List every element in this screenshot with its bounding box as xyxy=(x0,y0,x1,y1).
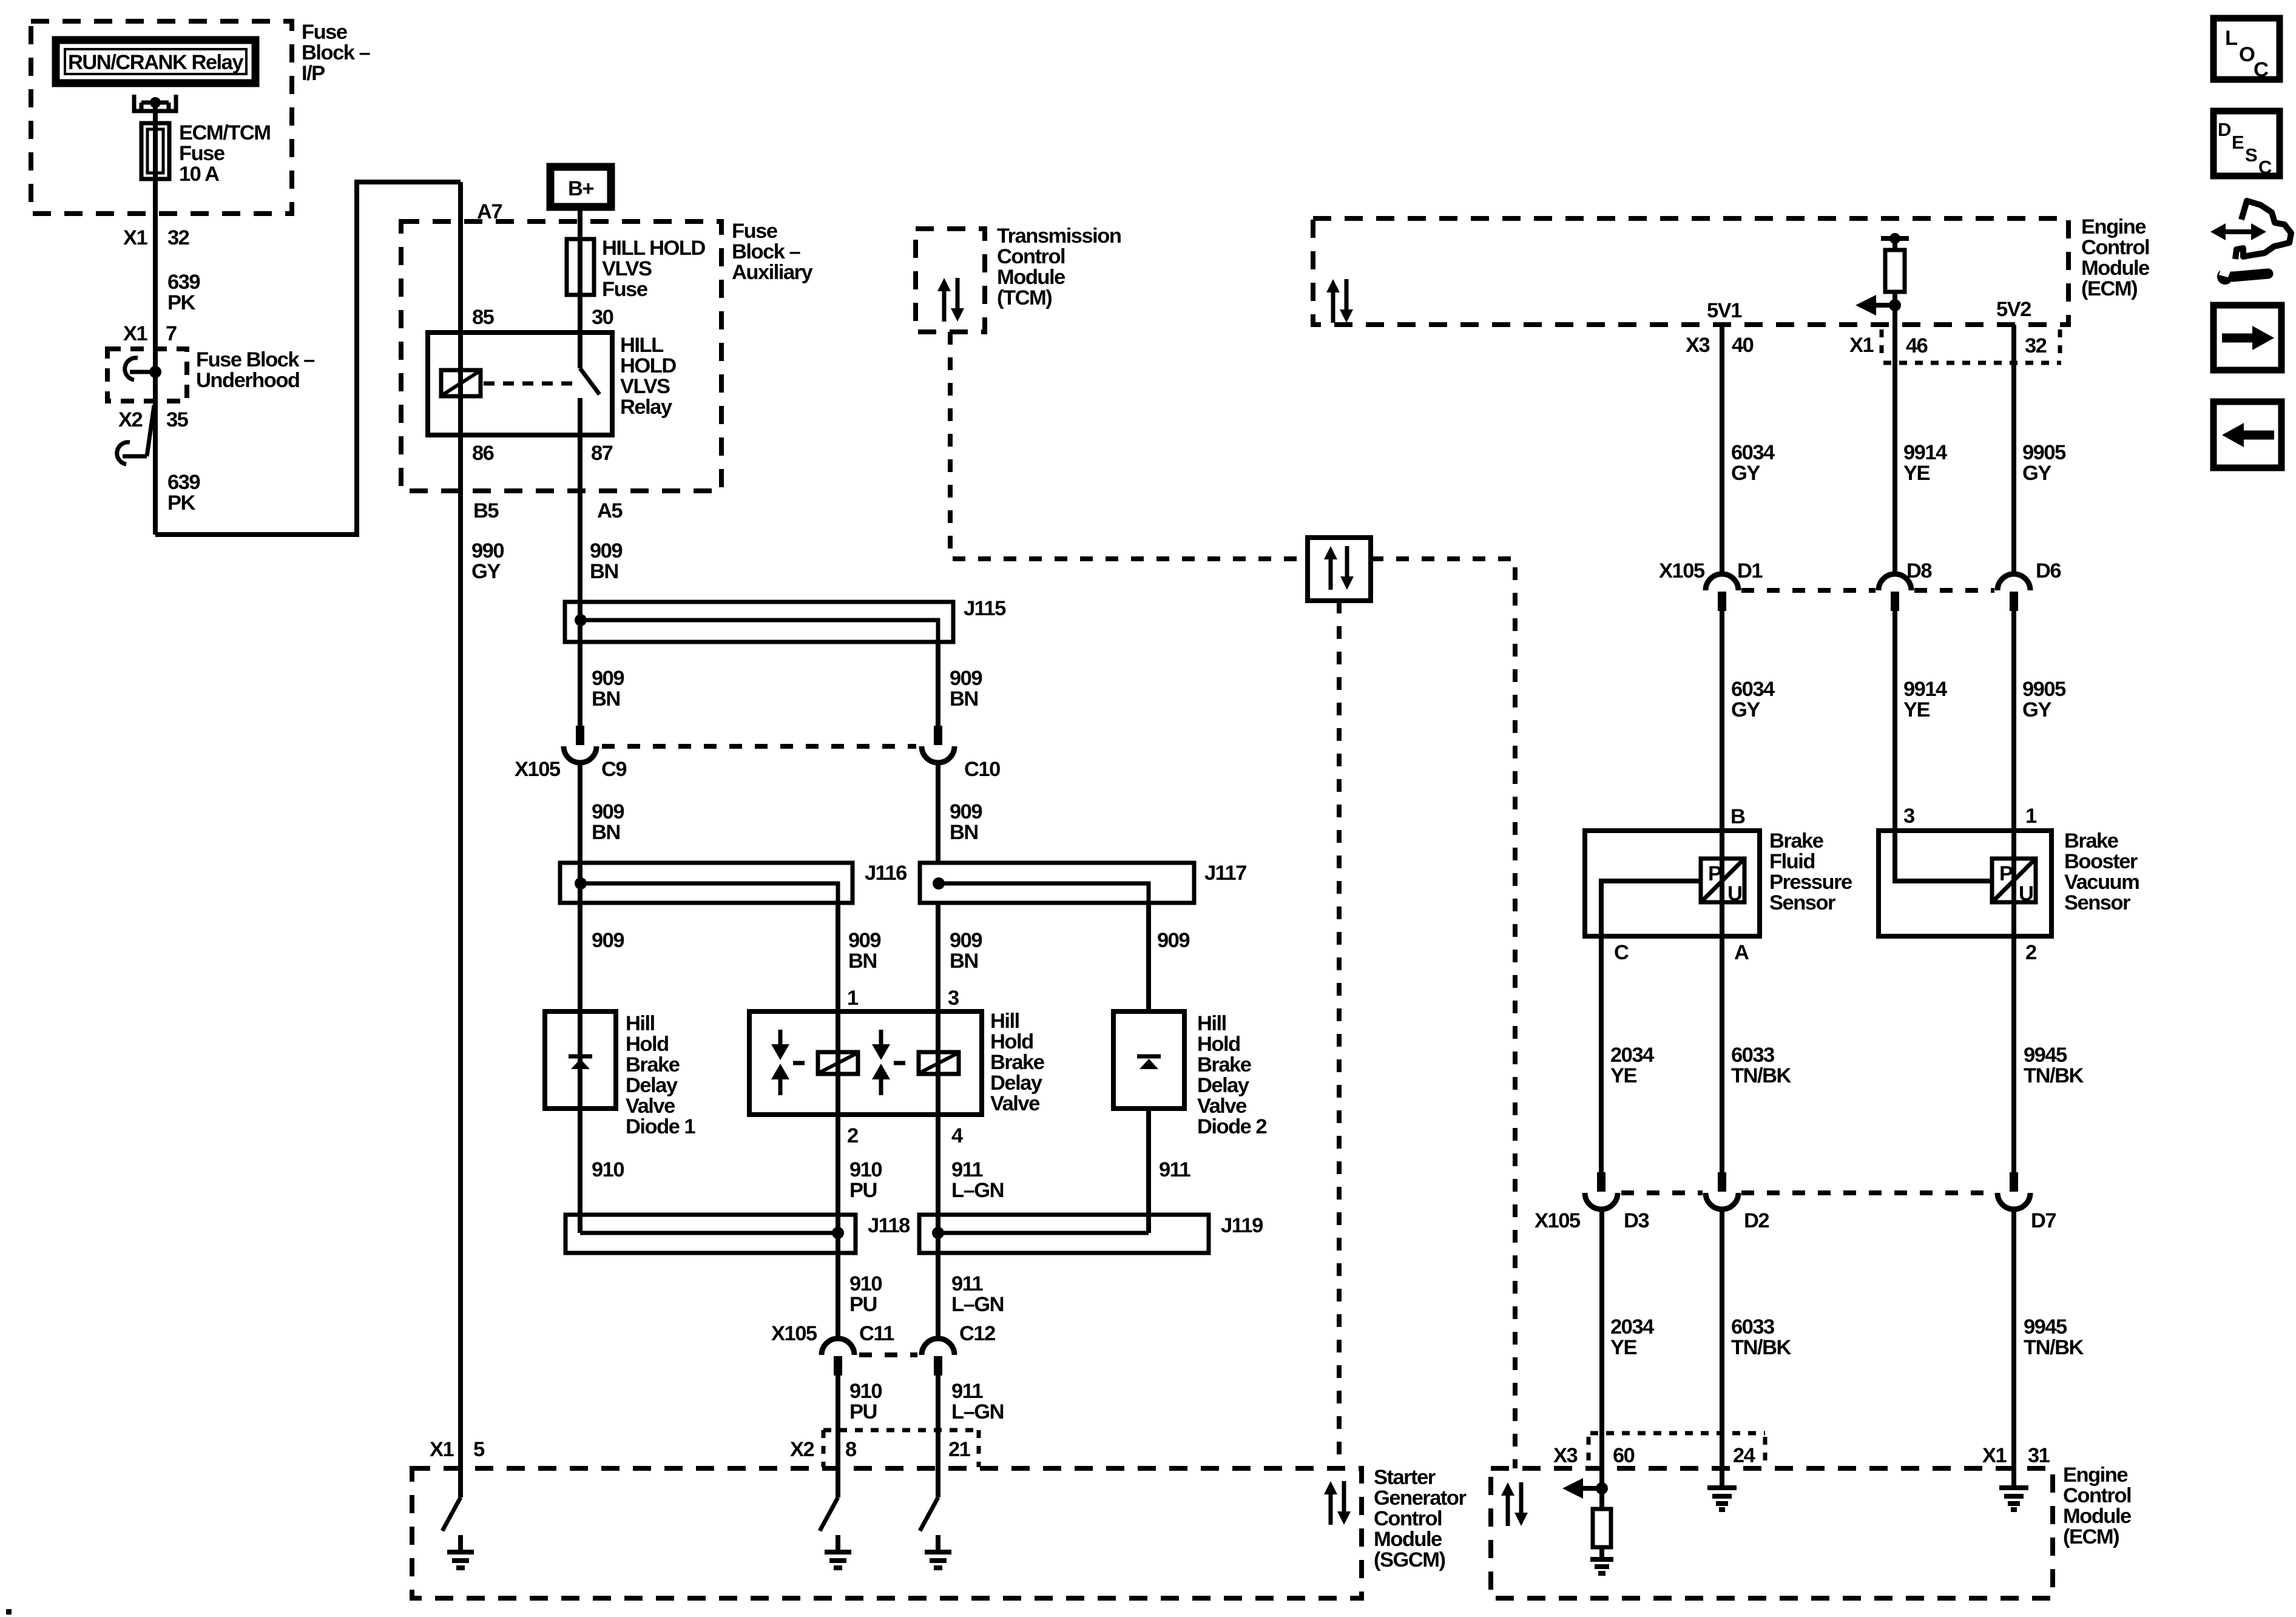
svg-text:J118: J118 xyxy=(868,1214,910,1237)
ground 9945 at X1 31 xyxy=(1999,1488,2028,1510)
svg-text:909: 909 xyxy=(1157,929,1189,952)
dash link right xyxy=(894,1061,905,1065)
wire 9945 TN/BK D7 to X1 31 xyxy=(2011,1207,2016,1485)
svg-text:BN: BN xyxy=(950,821,978,844)
svg-text:C: C xyxy=(2258,157,2272,178)
ground 6033 at 24 xyxy=(1707,1488,1737,1510)
wire 911 L-GN valve pin 4 to J119 xyxy=(936,1115,940,1338)
connector C11 female dome xyxy=(822,1338,854,1355)
wire 6034 GY D1 to sensor B xyxy=(1720,611,1724,831)
svg-text:10 A: 10 A xyxy=(179,163,219,186)
diode 2 symbol xyxy=(1137,1056,1161,1069)
wire 910 PU valve pin 2 to J118 xyxy=(836,1115,840,1338)
svg-text:Delay: Delay xyxy=(1197,1074,1249,1097)
svg-text:D7: D7 xyxy=(2031,1209,2056,1232)
svg-text:Fuse: Fuse xyxy=(602,278,648,301)
svg-text:GY: GY xyxy=(1731,698,1760,721)
svg-text:PK: PK xyxy=(167,291,196,314)
svg-text:(ECM): (ECM) xyxy=(2081,277,2137,300)
svg-text:909: 909 xyxy=(848,929,880,952)
brake booster vacuum sensor box xyxy=(1879,831,2051,936)
svg-text:(SGCM): (SGCM) xyxy=(1374,1548,1445,1571)
svg-text:YE: YE xyxy=(1610,1336,1637,1359)
valve coil 1 xyxy=(818,1052,858,1074)
svg-text:Valve: Valve xyxy=(990,1092,1040,1115)
svg-text:PK: PK xyxy=(167,491,196,515)
wire 910 PU C11 to X2 8 xyxy=(836,1376,840,1497)
svg-text:YE: YE xyxy=(1903,698,1930,721)
svg-text:Control: Control xyxy=(997,245,1065,268)
connector hook inside underhood box xyxy=(125,358,161,380)
svg-text:L: L xyxy=(2225,27,2238,50)
svg-text:X2: X2 xyxy=(118,408,143,431)
svg-text:J119: J119 xyxy=(1221,1214,1263,1237)
svg-text:35: 35 xyxy=(166,408,189,431)
svg-text:639: 639 xyxy=(167,271,200,294)
fuse block auxiliary dashed box xyxy=(401,221,721,491)
connector D1 dome and pin xyxy=(1706,574,1738,611)
svg-text:Underhood: Underhood xyxy=(196,369,299,392)
wire 909 BN J115 to C10 xyxy=(936,642,940,734)
svg-text:6033: 6033 xyxy=(1731,1315,1774,1338)
svg-text:Valve: Valve xyxy=(626,1095,675,1118)
svg-text:E: E xyxy=(2232,132,2244,153)
transmission control module TCM dashed box xyxy=(916,229,985,332)
svg-text:I/P: I/P xyxy=(302,62,325,85)
svg-text:Control: Control xyxy=(2081,236,2149,259)
fuse HILL HOLD VLVS xyxy=(567,239,594,295)
svg-text:909: 909 xyxy=(592,667,624,690)
svg-text:U: U xyxy=(2019,882,2033,905)
svg-text:PU: PU xyxy=(849,1179,877,1202)
sensor 1 internal line to pin C xyxy=(1601,881,1701,936)
svg-text:L–GN: L–GN xyxy=(951,1293,1004,1316)
wire B+ to fuse xyxy=(578,207,582,333)
splice J117 xyxy=(920,863,1194,903)
svg-text:Hill: Hill xyxy=(990,1010,1019,1033)
svg-text:X105: X105 xyxy=(771,1322,817,1345)
svg-text:5V2: 5V2 xyxy=(1996,298,2031,321)
svg-text:Transmission: Transmission xyxy=(997,224,1121,248)
svg-text:Fluid: Fluid xyxy=(1769,850,1815,873)
svg-text:911: 911 xyxy=(951,1380,983,1403)
svg-text:40: 40 xyxy=(1732,334,1754,357)
wire 990 GY pin 86 down full left run xyxy=(458,435,463,1497)
svg-text:909: 909 xyxy=(950,667,982,690)
relay dashed actuation link xyxy=(484,382,576,386)
svg-text:Brake: Brake xyxy=(2064,829,2119,852)
wire 639 PK bottom run to relay coil xyxy=(155,182,461,535)
data link arrows in TCM xyxy=(937,278,964,322)
svg-text:4: 4 xyxy=(951,1124,963,1147)
svg-text:Engine: Engine xyxy=(2063,1463,2128,1487)
fuse ECM/TCM 10A xyxy=(141,123,169,179)
svg-text:32: 32 xyxy=(2025,334,2047,357)
svg-text:X3: X3 xyxy=(1686,334,1710,357)
ground X2 8 xyxy=(825,1535,851,1568)
svg-text:639: 639 xyxy=(167,471,200,494)
wire 9914 YE D8 to sensor 3 xyxy=(1893,611,1897,831)
brake fluid pressure sensor box xyxy=(1585,831,1760,936)
svg-text:1: 1 xyxy=(847,987,859,1010)
relay switch blade xyxy=(580,333,599,394)
pull-down resistor in ECM xyxy=(1599,1488,1604,1509)
svg-text:D8: D8 xyxy=(1906,559,1932,582)
svg-text:D1: D1 xyxy=(1737,559,1763,582)
wire 9914 YE 46 to D8 xyxy=(1893,325,1897,576)
wire 6034 GY 5V1 to D1 xyxy=(1720,325,1724,576)
svg-text:1: 1 xyxy=(2025,805,2037,828)
svg-text:32: 32 xyxy=(167,226,189,249)
wire 9945 TN/BK pin 2 to D7 xyxy=(2011,936,2016,1177)
connector D3 pin and cup xyxy=(1585,1172,1618,1209)
svg-text:3: 3 xyxy=(948,987,959,1010)
svg-text:5V1: 5V1 xyxy=(1707,299,1742,322)
connector C9 female cup xyxy=(564,746,596,763)
svg-text:HOLD: HOLD xyxy=(620,354,676,377)
svg-text:Generator: Generator xyxy=(1374,1487,1466,1510)
svg-text:Module: Module xyxy=(1374,1528,1442,1551)
sensor 2 internal wire from pin 3 xyxy=(1895,831,1992,881)
svg-text:TN/BK: TN/BK xyxy=(1731,1064,1791,1087)
svg-text:909: 909 xyxy=(950,929,982,952)
fuse block I/P dashed box xyxy=(31,21,292,214)
svg-text:X2: X2 xyxy=(790,1438,814,1461)
svg-text:Fuse: Fuse xyxy=(179,142,225,165)
wire diode 2 down to J119 xyxy=(1146,1109,1151,1233)
svg-text:9945: 9945 xyxy=(2024,1315,2067,1338)
connector D7 pin and cup xyxy=(1997,1172,2030,1209)
svg-text:910: 910 xyxy=(849,1158,882,1181)
RUN/CRANK Relay bold box xyxy=(56,40,255,83)
data link arrows in SGCM xyxy=(1324,1481,1351,1525)
wire A7 down to relay pin 85 xyxy=(458,182,463,333)
svg-text:2: 2 xyxy=(2025,941,2036,964)
svg-text:BN: BN xyxy=(592,687,620,711)
svg-text:31: 31 xyxy=(2028,1444,2050,1467)
wire 909 BN J116 to valve pin 1 xyxy=(836,903,840,1011)
svg-text:Vacuum: Vacuum xyxy=(2064,871,2139,894)
wire 2034 YE D3 to X3 60 xyxy=(1599,1207,1604,1488)
svg-text:Delay: Delay xyxy=(626,1074,678,1097)
svg-text:C: C xyxy=(1614,941,1629,964)
svg-text:Pressure: Pressure xyxy=(1769,871,1852,894)
icon car outline with wrench xyxy=(2210,201,2291,285)
dashed connector line D3 D2 xyxy=(1621,1190,1703,1195)
svg-text:909: 909 xyxy=(592,800,624,823)
svg-text:Control: Control xyxy=(1374,1507,1442,1530)
svg-text:Fuse: Fuse xyxy=(302,21,348,44)
svg-text:Brake: Brake xyxy=(626,1053,680,1076)
svg-text:D6: D6 xyxy=(2036,559,2061,582)
check valve symbol right xyxy=(872,1030,890,1095)
connector D8 dome and pin xyxy=(1879,574,1911,611)
svg-text:PU: PU xyxy=(849,1400,877,1423)
svg-text:9914: 9914 xyxy=(1903,441,1947,464)
svg-text:L–GN: L–GN xyxy=(951,1179,1004,1202)
svg-text:Sensor: Sensor xyxy=(1769,891,1835,914)
check valve symbol left xyxy=(771,1030,789,1095)
icon back arrow box xyxy=(2213,402,2281,468)
data link arrows in junction box xyxy=(1324,546,1354,590)
svg-text:HILL: HILL xyxy=(620,334,664,357)
svg-text:Brake: Brake xyxy=(1197,1053,1252,1076)
svg-text:A: A xyxy=(1734,941,1749,964)
wire 639 PK from fuse down xyxy=(153,103,158,535)
svg-text:GY: GY xyxy=(471,560,501,583)
svg-text:Auxiliary: Auxiliary xyxy=(732,261,813,284)
relay coil xyxy=(441,370,481,396)
fuse block underhood dashed connector box xyxy=(107,349,187,401)
svg-text:Module: Module xyxy=(2081,257,2150,280)
svg-text:J117: J117 xyxy=(1204,862,1246,885)
svg-text:VLVS: VLVS xyxy=(620,375,670,398)
svg-text:Block –: Block – xyxy=(302,41,371,64)
svg-text:B+: B+ xyxy=(568,177,593,200)
connector C12 male pin xyxy=(934,1356,942,1376)
wire through coil 1 xyxy=(836,1011,840,1115)
data link arrows in ECM bottom xyxy=(1501,1482,1528,1526)
sensor 1 P/U transducer square xyxy=(1701,859,1744,905)
connector X1 dotted box 46 32 xyxy=(1882,329,2061,363)
junction dot and arrow X3 60 xyxy=(1562,1478,1608,1499)
serial data junction box xyxy=(1308,538,1371,601)
junction dot and arrow 46 xyxy=(1855,295,1901,316)
svg-text:BN: BN xyxy=(950,950,978,973)
svg-text:Relay: Relay xyxy=(620,396,672,419)
svg-text:VLVS: VLVS xyxy=(602,257,652,280)
dashed connector line C9 C10 xyxy=(602,744,916,749)
svg-text:5: 5 xyxy=(473,1438,485,1461)
svg-text:X3: X3 xyxy=(1553,1444,1578,1467)
svg-text:Sensor: Sensor xyxy=(2064,891,2130,914)
ground below resistor xyxy=(1590,1547,1613,1573)
svg-text:46: 46 xyxy=(1906,334,1928,357)
ground X1 5 xyxy=(447,1535,474,1568)
svg-text:6034: 6034 xyxy=(1731,441,1775,464)
svg-text:HILL HOLD: HILL HOLD xyxy=(602,237,705,260)
svg-text:6033: 6033 xyxy=(1731,1044,1774,1067)
svg-text:C11: C11 xyxy=(859,1322,894,1345)
svg-text:Hold: Hold xyxy=(626,1033,669,1056)
diode 1 box xyxy=(545,1011,616,1109)
svg-text:910: 910 xyxy=(849,1272,882,1295)
svg-text:Hill: Hill xyxy=(1197,1012,1226,1035)
starter generator control module SGCM dashed box xyxy=(412,1468,1362,1598)
diode 1 symbol xyxy=(569,1056,592,1069)
svg-text:990: 990 xyxy=(471,539,504,562)
fuse clip symbol under relay xyxy=(134,95,176,111)
svg-text:9905: 9905 xyxy=(2022,678,2066,701)
svg-text:J116: J116 xyxy=(865,862,907,885)
svg-text:TN/BK: TN/BK xyxy=(1731,1336,1791,1359)
svg-text:BN: BN xyxy=(592,821,620,844)
svg-text:909: 909 xyxy=(590,539,622,562)
svg-text:X105: X105 xyxy=(515,758,561,781)
svg-text:911: 911 xyxy=(951,1158,983,1181)
engine control module ECM dashed box top xyxy=(1313,218,2068,325)
wire 9905 GY D6 to sensor 1 xyxy=(2011,611,2016,831)
sensor 2 internal wire pin 1 to 2 xyxy=(2011,831,2016,936)
icon DESC box xyxy=(2213,111,2280,178)
dashed connector line C11 C12 xyxy=(859,1352,917,1357)
svg-text:C9: C9 xyxy=(601,758,626,781)
svg-text:B: B xyxy=(1730,805,1745,828)
svg-text:Fuse: Fuse xyxy=(732,220,778,243)
wire through coil 2 xyxy=(936,1011,940,1115)
svg-text:9914: 9914 xyxy=(1903,678,1947,701)
svg-text:D2: D2 xyxy=(1744,1209,1769,1232)
wire 909 BN J115 to C9 xyxy=(578,642,582,734)
svg-text:Engine: Engine xyxy=(2081,215,2146,238)
diode 2 box xyxy=(1113,1011,1184,1109)
svg-text:Starter: Starter xyxy=(1374,1466,1436,1489)
wire 6033 TN/BK D2 to 24 ground xyxy=(1720,1207,1724,1487)
svg-text:Module: Module xyxy=(2063,1505,2132,1528)
wire 2034 YE pin C to D3 xyxy=(1599,936,1604,1177)
svg-text:Hold: Hold xyxy=(1197,1033,1240,1056)
svg-text:RUN/CRANK Relay: RUN/CRANK Relay xyxy=(68,51,243,74)
wire 909 BN pin 87 down to J115 xyxy=(578,398,582,734)
svg-text:Diode 1: Diode 1 xyxy=(626,1115,695,1138)
svg-text:BN: BN xyxy=(950,687,978,711)
svg-text:60: 60 xyxy=(1613,1444,1635,1467)
svg-text:X1: X1 xyxy=(430,1438,454,1461)
svg-text:910: 910 xyxy=(849,1380,882,1403)
ground X2 21 xyxy=(925,1535,951,1568)
svg-text:S: S xyxy=(2245,144,2257,166)
svg-text:YE: YE xyxy=(1610,1064,1637,1087)
svg-text:8: 8 xyxy=(845,1438,857,1461)
svg-text:GY: GY xyxy=(2022,698,2051,721)
svg-text:910: 910 xyxy=(592,1158,624,1181)
dash link left xyxy=(793,1061,805,1065)
connector C9 male pin xyxy=(576,726,584,745)
svg-text:C: C xyxy=(2254,58,2268,81)
svg-text:21: 21 xyxy=(948,1438,971,1461)
data link arrows in ECM xyxy=(1326,279,1353,323)
svg-text:BN: BN xyxy=(848,950,877,973)
splice J116 xyxy=(560,863,853,903)
svg-text:2034: 2034 xyxy=(1610,1315,1654,1338)
svg-text:GY: GY xyxy=(2022,462,2051,485)
svg-text:Booster: Booster xyxy=(2064,850,2138,873)
svg-text:X105: X105 xyxy=(1535,1209,1581,1232)
svg-text:C12: C12 xyxy=(959,1322,995,1345)
svg-text:2034: 2034 xyxy=(1610,1044,1654,1067)
svg-text:J115: J115 xyxy=(964,597,1006,620)
svg-text:Diode 2: Diode 2 xyxy=(1197,1115,1266,1138)
svg-text:6034: 6034 xyxy=(1731,678,1775,701)
svg-text:X1: X1 xyxy=(123,322,148,345)
connector C11 male pin xyxy=(834,1356,842,1376)
svg-text:3: 3 xyxy=(1903,805,1914,828)
wire 6033 TN/BK pin A to D2 xyxy=(1720,936,1724,1177)
svg-text:Module: Module xyxy=(997,266,1065,289)
wire 909 BN C10 to J117 xyxy=(936,761,940,863)
svg-text:X105: X105 xyxy=(1659,559,1705,582)
icon LOC box xyxy=(2213,18,2280,81)
svg-text:911: 911 xyxy=(951,1272,983,1295)
svg-text:D: D xyxy=(2218,119,2231,140)
svg-text:U: U xyxy=(1727,882,1741,905)
engine control module ECM dashed box bottom xyxy=(1491,1468,2053,1598)
connector hook terminal X2 35 xyxy=(117,405,154,464)
connector C12 female dome xyxy=(922,1338,954,1355)
svg-text:L–GN: L–GN xyxy=(951,1400,1004,1423)
svg-text:Hill: Hill xyxy=(626,1012,655,1035)
svg-text:A5: A5 xyxy=(597,499,623,522)
sensor 1 internal wire B xyxy=(1720,831,1724,936)
svg-text:(TCM): (TCM) xyxy=(997,286,1052,309)
svg-text:24: 24 xyxy=(1733,1444,1755,1467)
B+ power symbol box xyxy=(550,167,611,207)
svg-text:B5: B5 xyxy=(473,499,499,522)
svg-text:909: 909 xyxy=(592,929,624,952)
connector D2 pin and cup xyxy=(1706,1172,1738,1209)
stray period bottom left xyxy=(6,1609,12,1615)
svg-text:TN/BK: TN/BK xyxy=(2024,1336,2084,1359)
dashed serial data wire junction to ECM branch xyxy=(1371,559,1515,1468)
svg-text:O: O xyxy=(2239,43,2255,66)
dashed serial data wire from TCM xyxy=(950,332,1308,559)
svg-text:Delay: Delay xyxy=(990,1072,1042,1095)
svg-text:9945: 9945 xyxy=(2024,1044,2067,1067)
svg-text:87: 87 xyxy=(591,442,613,465)
svg-text:Fuse Block –: Fuse Block – xyxy=(196,348,315,371)
wire 909 BN C9 to J116 xyxy=(578,761,582,863)
svg-text:TN/BK: TN/BK xyxy=(2024,1064,2084,1087)
splice J118 xyxy=(566,1215,856,1253)
dashed connector line D1 D8 xyxy=(1741,588,1876,593)
svg-text:Brake: Brake xyxy=(1769,829,1824,852)
icon forward arrow box xyxy=(2213,305,2281,370)
switch blade X2 8 xyxy=(820,1497,838,1531)
svg-text:9905: 9905 xyxy=(2022,441,2066,464)
svg-text:X1: X1 xyxy=(1849,334,1874,357)
connector X3 dotted box 60 24 xyxy=(1589,1433,1765,1466)
svg-text:C10: C10 xyxy=(964,758,1000,781)
connector X2 dotted box xyxy=(823,1430,979,1467)
svg-text:Control: Control xyxy=(2063,1484,2131,1507)
svg-text:P: P xyxy=(1999,862,2013,885)
svg-text:X1: X1 xyxy=(123,226,148,249)
sensor 2 P/U transducer square xyxy=(1992,859,2036,905)
svg-text:(ECM): (ECM) xyxy=(2063,1525,2119,1548)
svg-text:BN: BN xyxy=(590,560,618,583)
valve coil 2 xyxy=(919,1052,959,1074)
splice J115 xyxy=(565,602,953,642)
relay coil wire through xyxy=(458,333,463,435)
svg-text:909: 909 xyxy=(950,800,982,823)
svg-text:86: 86 xyxy=(472,442,494,465)
svg-text:GY: GY xyxy=(1731,462,1760,485)
dashed connector line D2 D7 xyxy=(1741,1190,1994,1195)
connector D6 dome and pin xyxy=(1997,574,2030,611)
svg-text:D3: D3 xyxy=(1624,1209,1649,1232)
svg-text:Brake: Brake xyxy=(990,1051,1045,1074)
valve assembly box xyxy=(749,1011,982,1115)
svg-text:ECM/TCM: ECM/TCM xyxy=(179,121,270,144)
svg-text:X1: X1 xyxy=(1982,1444,2007,1467)
switch blade X1 5 xyxy=(442,1497,461,1531)
svg-text:85: 85 xyxy=(472,306,495,329)
svg-text:PU: PU xyxy=(849,1293,877,1316)
svg-text:Hold: Hold xyxy=(990,1030,1033,1053)
connector C10 female cup xyxy=(922,746,954,763)
svg-text:YE: YE xyxy=(1903,462,1930,485)
dashed connector line D8 D6 xyxy=(1914,588,1994,593)
